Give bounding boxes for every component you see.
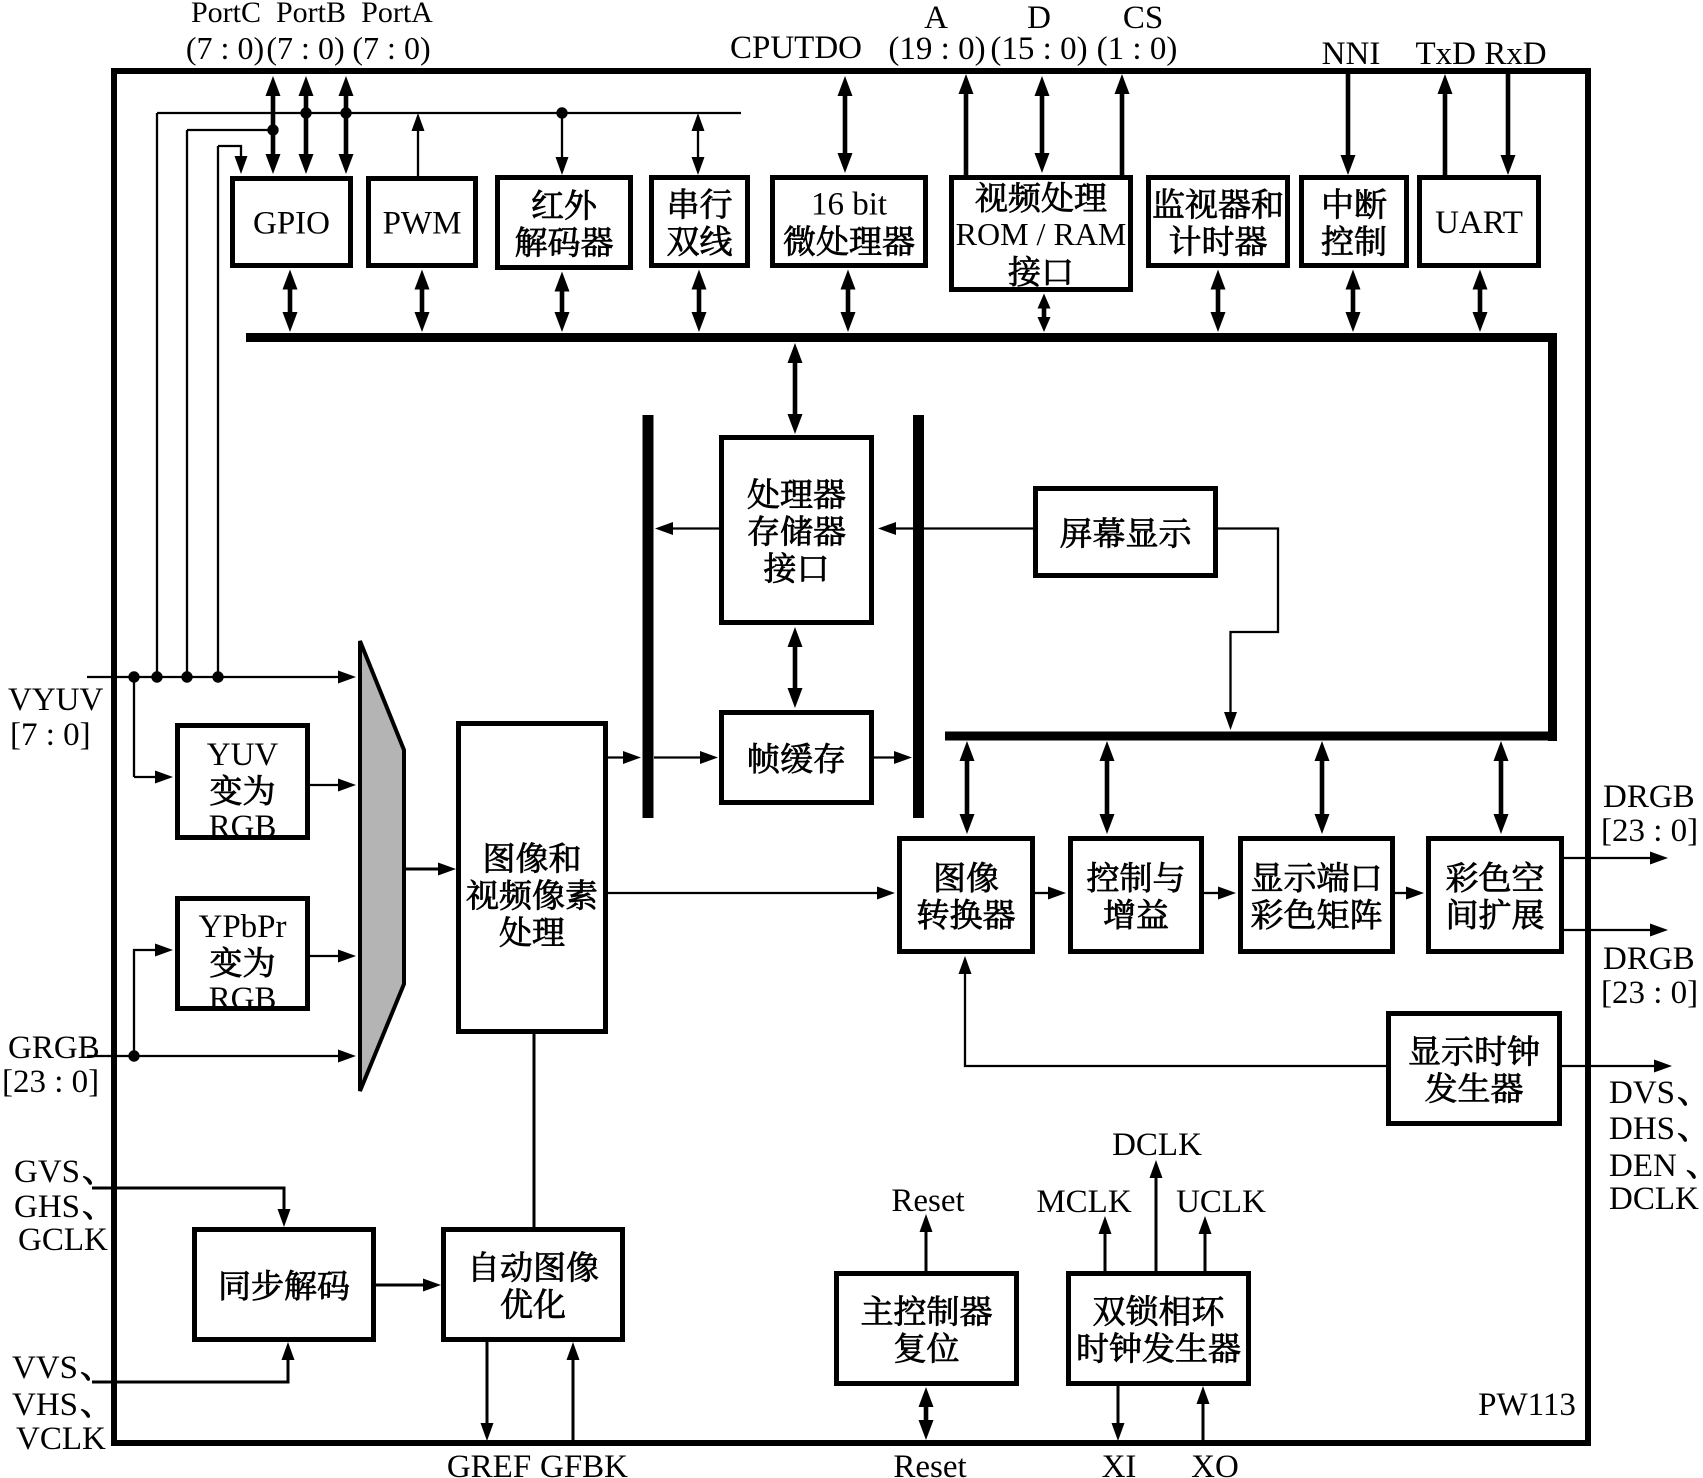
wire PortB double arrow [299,76,314,174]
wire OSD output to pixel bus [1218,529,1278,731]
wire MCLK output [1099,1216,1112,1271]
svg-text:PortA: PortA [361,0,433,29]
svg-text:DVS: DVS [1609,1075,1675,1111]
block main controller reset [837,1274,1017,1384]
label CS [1123,0,1163,36]
svg-text:DRGB: DRGB [1603,779,1695,815]
label DCLK output [1609,1181,1699,1217]
wire mux output to pixel processing [406,863,456,876]
junction on PortC line [267,124,278,135]
wire TxD out [1438,74,1453,175]
wire GPIO to system bus double arrow [283,270,298,333]
bus main system bus [246,333,1557,342]
wire GREF output [481,1342,494,1441]
wire VYUV tap to YUV2RGB [134,677,173,784]
label D [1027,0,1051,36]
svg-text:(7 : 0): (7 : 0) [186,30,264,66]
svg-text:VYUV: VYUV [8,682,103,718]
svg-text:DCLK: DCLK [1112,1127,1202,1163]
block monitor and timer [1149,178,1288,266]
wire XI input [1112,1386,1125,1441]
svg-text:PortB: PortB [276,0,346,29]
wire interrupt to system bus double arrow [1346,270,1361,333]
label XI [1102,1449,1137,1478]
block image and video pixel processing [459,724,606,1032]
label CS width (1:0) [1097,31,1178,67]
wire display clock outputs [1562,1060,1672,1073]
block on-screen display (ping-mu-xian-shi) [1036,489,1216,576]
label GVS [14,1154,92,1190]
wire port net B (y=130) [187,129,273,131]
label Reset top [891,1183,964,1219]
wire CPUTDO double arrow [838,76,853,173]
wire DCLK output [1150,1160,1163,1271]
svg-text:DHS: DHS [1609,1111,1675,1147]
svg-text:XO: XO [1191,1449,1239,1478]
wire monitor-timer to system bus double arrow [1211,270,1226,333]
svg-text:[7 : 0]: [7 : 0] [10,717,91,753]
svg-text:VHS: VHS [12,1387,78,1423]
wire IR decoder to system bus double arrow [555,272,570,333]
block GPIO [233,179,351,266]
label CPUTDO [730,30,862,66]
junction on IR line [556,107,567,118]
block display-port color matrix [1241,839,1393,952]
svg-text:MCLK: MCLK [1036,1184,1132,1220]
svg-text:16 bit: 16 bit [811,187,887,223]
label chip name PW113 [1478,1387,1576,1423]
svg-text:Reset: Reset [891,1183,964,1219]
wire system bus to processor-memory interface double arrow [788,343,803,434]
label DRGB lower [1603,941,1695,977]
wire VYUV input line [87,671,356,684]
label VVS [12,1350,90,1386]
label NNI [1322,36,1381,72]
wire GRGB input line [87,1050,356,1063]
label VYUV width [7:0] [10,717,91,753]
label DRGB lower width [23:0] [1601,975,1698,1011]
wire left bar to frame buffer [654,751,718,764]
wire XO input [1197,1386,1210,1441]
wire pixel bus to color matrix double arrow [1315,741,1330,834]
wire vertical net x=157 [156,113,158,677]
svg-text:DCLK: DCLK [1609,1181,1699,1217]
wire pixel bus to image converter double arrow [960,741,975,834]
label DRGB upper width [23:0] [1601,813,1698,849]
label TxD RxD [1415,36,1546,72]
svg-text:XI: XI [1102,1449,1137,1478]
junction VYUV-YUV tap [128,671,139,682]
svg-text:[23 : 0]: [23 : 0] [1601,813,1698,849]
wire A address out [959,74,974,175]
bus right vertical segment [1548,334,1557,741]
wire 16bit CPU to system bus double arrow [841,270,856,333]
wire vertical net x=187 [186,130,188,677]
wire PortA double arrow [339,76,354,174]
block control and gain [1071,839,1202,952]
label GHS [14,1189,92,1225]
label PortA [361,0,433,29]
svg-text:[23 : 0]: [23 : 0] [1601,975,1698,1011]
wire control-gain to color matrix [1204,887,1236,900]
block interrupt control [1302,178,1407,266]
wire ROM/RAM interface to system bus double arrow [1038,294,1051,333]
block serial two-wire (chuan-xing shuang-xian) [652,178,748,266]
mux input selector trapezoid [360,641,404,1091]
wire YPbPr2RGB to mux [310,950,356,963]
block IR decoder (red-wai jie-ma-qi) [498,178,631,268]
label DVS [1609,1075,1687,1111]
svg-text:PortC: PortC [191,0,261,29]
wire D data double arrow [1035,76,1050,173]
wire YUV2RGB to mux [310,779,356,792]
label DHS [1609,1111,1687,1147]
wire image converter to control-gain [1035,887,1066,900]
wire RxD in [1501,74,1516,175]
block dual PLL clock generator [1069,1274,1249,1384]
svg-text:CPUTDO: CPUTDO [730,30,862,66]
svg-text:PWM: PWM [383,206,462,242]
wire color matrix to color-space-expansion [1395,887,1424,900]
label GCLK [18,1222,108,1258]
wire pixel-processing to left bar [608,751,641,764]
label DCLK [1112,1127,1202,1163]
label VCLK [16,1421,106,1457]
svg-text:RGB: RGB [209,981,277,1017]
bus bar right (memory data bar) [913,415,924,818]
svg-text:(7 : 0): (7 : 0) [266,30,344,66]
junction GRGB-YPbPr tap [128,1050,139,1061]
svg-text:GPIO: GPIO [253,206,330,242]
bus bar left (memory data bar) [643,415,654,818]
wire VVS/VHS/VCLK input to sync decoder [92,1342,295,1382]
svg-text:GRGB: GRGB [8,1030,100,1066]
block UART [1420,178,1539,266]
svg-text:NNI: NNI [1322,36,1381,72]
wire pixel bus to control-gain double arrow [1100,741,1115,834]
label A width (19:0) [888,31,985,67]
block sync decoder (tong-bu jie-ma) [195,1230,374,1340]
label DRGB upper [1603,779,1695,815]
svg-text:(1 : 0): (1 : 0) [1097,31,1178,67]
label D width (15:0) [990,31,1087,67]
label VHS [12,1387,90,1423]
block PWM [369,179,476,266]
junction VYUV net218 [212,671,223,682]
label XO [1191,1449,1239,1478]
svg-text:GVS: GVS [14,1154,80,1190]
svg-text:DRGB: DRGB [1603,941,1695,977]
wire port net A (y=113) [157,112,741,114]
label DEN [1609,1148,1695,1184]
wire PortC double arrow [266,76,281,174]
block YUV to RGB converter [178,726,308,846]
wire UART to system bus double arrow [1473,270,1488,333]
block frame buffer (zhen-huan-cun) [722,713,872,803]
label Reset bottom [893,1449,966,1478]
svg-text:TxD RxD: TxD RxD [1415,36,1546,72]
svg-text:[23 : 0]: [23 : 0] [2,1064,99,1100]
wire UCLK output [1199,1216,1212,1271]
wire PWM to system bus double arrow [415,270,430,333]
wire GVS/GHS/GCLK input to sync decoder [92,1188,291,1227]
label VYUV [8,682,103,718]
svg-text:RGB: RGB [209,809,277,845]
wire pixel processing to image converter [608,887,895,900]
wire Reset output up [920,1214,933,1271]
svg-text:(7 : 0): (7 : 0) [352,30,430,66]
block video processing ROM/RAM interface [952,178,1131,290]
svg-text:VCLK: VCLK [16,1421,106,1457]
bus display pixel bus [945,732,1557,741]
block image converter (tu-xiang zhuan-huan-qi) [900,839,1033,952]
wire CS chip-select out [1115,74,1130,175]
svg-text:GCLK: GCLK [18,1222,108,1258]
label GREF [447,1449,531,1478]
label PortC [191,0,261,29]
wire PWM to port net [412,113,425,176]
svg-text:VVS: VVS [12,1350,78,1386]
wire NNI in [1341,74,1356,175]
label PortB [276,0,346,29]
wire IR decoder from port net [556,113,569,175]
svg-text:Reset: Reset [893,1449,966,1478]
label GRGB [8,1030,100,1066]
svg-text:ROM / RAM: ROM / RAM [956,216,1127,252]
label GRGB width [23:0] [2,1064,99,1100]
wire DRGB output upper [1564,852,1668,865]
svg-text:UCLK: UCLK [1176,1184,1266,1220]
wire sync decoder to auto image optimization [376,1279,441,1292]
junction on PortB line [300,107,311,118]
wire serial to system bus double arrow [692,270,707,333]
wire OSD to proc-mem interface [878,522,1033,535]
wire vertical net x=218 [217,146,219,677]
wire proc-mem interface to left bar [655,522,719,535]
wire display clock to image converter [959,956,1387,1066]
label PortA width (7:0) [352,30,430,66]
svg-text:GREF: GREF [447,1449,531,1478]
wire GFBK input [567,1342,580,1441]
wire port net C to GPIO [218,146,248,174]
svg-text:UART: UART [1435,205,1523,241]
svg-text:PW113: PW113 [1478,1387,1576,1423]
svg-text:(19 : 0): (19 : 0) [888,31,985,67]
block YPbPr to RGB converter [178,899,308,1018]
wire serial two-wire double arrow [692,113,705,175]
label UCLK [1176,1184,1266,1220]
wire DRGB output lower [1564,924,1668,937]
block display clock generator [1389,1014,1560,1124]
label A [924,0,948,36]
label GFBK [540,1449,628,1478]
svg-text:GHS: GHS [14,1189,80,1225]
svg-text:DEN: DEN [1609,1148,1677,1184]
junction on PortA line [340,107,351,118]
wire pixel processing to auto image optimization [533,1034,536,1227]
svg-text:YPbPr: YPbPr [198,909,286,945]
wire Reset pin double arrow [919,1387,934,1440]
wire pixel bus to color-space-expansion double arrow [1494,741,1509,834]
junction VYUV net187 [181,671,192,682]
svg-text:GFBK: GFBK [540,1449,628,1478]
label MCLK [1036,1184,1132,1220]
block color space expansion [1429,839,1562,952]
svg-text:YUV: YUV [207,737,279,773]
wire frame buffer to right bar [874,751,912,764]
block processor memory interface [722,438,872,623]
label PortC width (7:0) [186,30,264,66]
wire GRGB tap to YPbPr2RGB [134,944,173,1057]
svg-text:(15 : 0): (15 : 0) [990,31,1087,67]
wire proc-mem interface to frame buffer double arrow [788,627,803,708]
block auto image optimization [444,1230,623,1340]
junction VYUV net157 [151,671,162,682]
label PortB width (7:0) [266,30,344,66]
block 16-bit microprocessor [773,178,926,266]
